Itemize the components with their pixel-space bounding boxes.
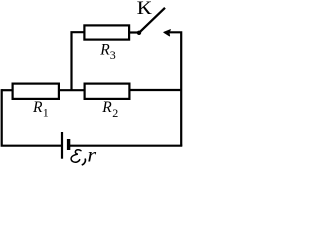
resistor R1	[13, 84, 59, 99]
wire: top-left corner from R3 branch down to middle rail	[72, 32, 84, 90]
resistor R2	[85, 84, 130, 99]
wire: arrow to top-right corner, then right vertical down to bottom rail	[169, 32, 181, 145]
label R1	[32, 99, 49, 119]
battery long plate (positive)	[61, 132, 63, 159]
label R3	[99, 42, 116, 62]
wire: left rail into R1	[2, 89, 13, 91]
wire: R1 to R2 (middle rail, junction with R3 branch)	[59, 89, 85, 91]
label comma after EMF	[82, 159, 85, 165]
wire: battery to bottom-right corner	[70, 145, 182, 147]
resistor R3	[84, 25, 129, 39]
wire: R3 right edge to switch pivot	[129, 31, 138, 33]
label R2	[101, 99, 118, 120]
switch K fixed contact (arrowhead pointing left)	[164, 30, 171, 36]
switch K pivot dot	[137, 31, 141, 35]
wire: R2 to right vertical rail	[129, 89, 181, 91]
svg-text:2: 2	[112, 106, 118, 120]
svg-text:3: 3	[110, 48, 116, 62]
svg-text:К: К	[137, 0, 152, 18]
svg-text:r: r	[87, 143, 96, 166]
battery short plate (negative)	[67, 139, 70, 150]
label EMF: script E	[71, 150, 81, 162]
svg-text:R: R	[32, 99, 43, 116]
svg-text:R: R	[99, 42, 110, 59]
svg-text:1: 1	[43, 105, 49, 119]
wire: left vertical rail down to bottom	[2, 89, 61, 146]
switch K blade (open)	[140, 8, 166, 33]
svg-text:R: R	[101, 99, 112, 116]
